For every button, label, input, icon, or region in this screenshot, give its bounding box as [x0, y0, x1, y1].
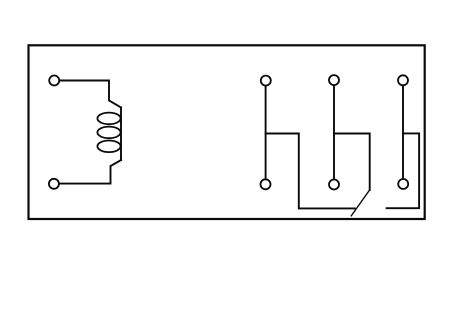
coil pin 2 (bottom-left terminal): [49, 179, 59, 189]
switch contact arm (movable blade): [351, 190, 369, 216]
wire: coil bottom lead to coil pin 2: [54, 160, 121, 184]
contact pin 2 top terminal: [329, 75, 339, 85]
inductor coil L1 core line: [120, 108, 122, 161]
wire: coil pin 1 to coil top lead: [54, 81, 121, 108]
coil pin 1 (top-left terminal): [49, 76, 59, 86]
wire: contact column 2 branch to switch pivot: [334, 134, 370, 191]
inductor coil L1 winding loop 2: [97, 127, 120, 139]
relay body outline: [29, 45, 425, 219]
inductor coil L1 winding loop 1: [97, 113, 120, 125]
contact pin 3 top terminal: [398, 75, 408, 85]
wire: contact column 3 vertical: [402, 80, 404, 184]
contact pin 1 bottom terminal: [261, 179, 271, 189]
wire: contact column 2 vertical: [333, 80, 335, 184]
contact pin 2 bottom terminal: [329, 180, 339, 190]
inductor coil L1 winding loop 3: [97, 141, 120, 153]
contact pin 3 bottom terminal: [398, 179, 408, 189]
contact pin 1 top terminal: [261, 76, 271, 86]
wire: contact column 1 vertical: [265, 81, 267, 185]
wire: contact column 3 branch to switch throw: [387, 133, 420, 208]
wire: contact column 1 branch to switch common: [266, 134, 355, 209]
